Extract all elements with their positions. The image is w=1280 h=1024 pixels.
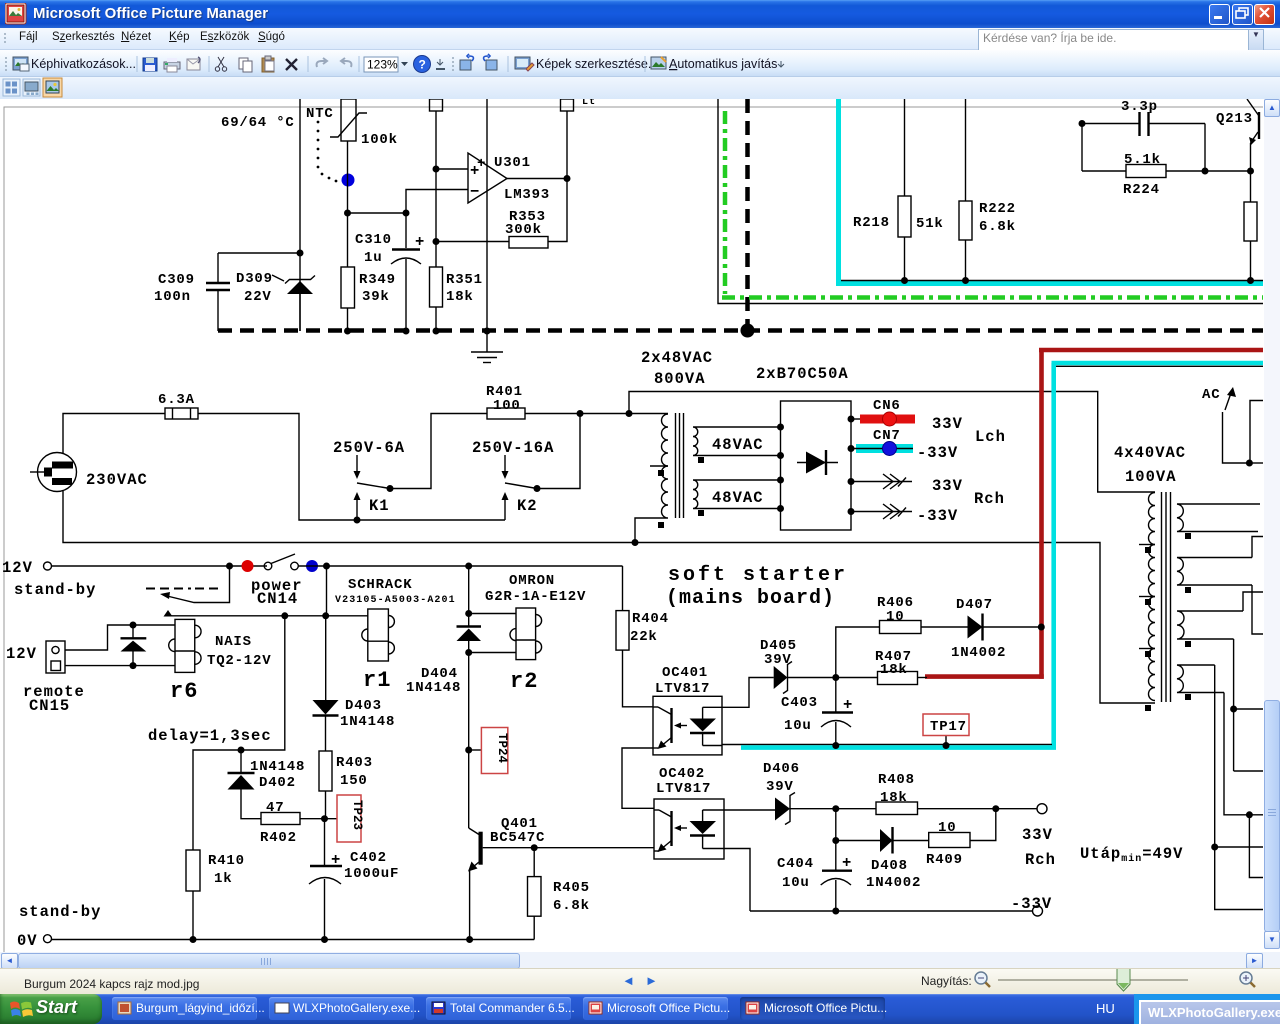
- annotation arrow 250V-6A: [354, 455, 361, 479]
- svg-text:r1: r1: [363, 668, 391, 693]
- optocoupler OC401 LTV817: [653, 696, 722, 755]
- wire R401 to node: [525, 413, 629, 415]
- resistor R402 47: [261, 813, 300, 825]
- diode D404: [457, 627, 482, 751]
- node K1 bottom junction: [354, 517, 361, 524]
- svg-text:?: ?: [419, 58, 426, 72]
- wire OC402 anode to D406: [724, 809, 775, 811]
- svg-text:Automatikus javítás: Automatikus javítás: [669, 57, 777, 71]
- svg-text:Képhivatkozások...: Képhivatkozások...: [31, 57, 136, 71]
- test point TP24: [469, 728, 509, 774]
- svg-text:33V: 33V: [1022, 826, 1053, 844]
- svg-text:K1: K1: [369, 497, 390, 515]
- wire secondary D links: [1215, 665, 1263, 910]
- wire K1 to R401: [390, 414, 487, 489]
- wire OC401 emitter to OC402: [622, 748, 654, 808]
- svg-text:D402: D402: [259, 775, 296, 791]
- svg-text:r6: r6: [170, 679, 198, 704]
- wire C309-D309 top: [218, 252, 300, 254]
- svg-text:Lch: Lch: [975, 428, 1006, 446]
- bridge diode symbol: [797, 450, 838, 475]
- wire -33V rail: [750, 910, 1033, 912]
- cyan net vertical top-right: [836, 99, 1263, 284]
- svg-text:18k: 18k: [880, 662, 908, 678]
- resistor R406 10: [880, 621, 922, 634]
- annotation arrow 250V-16A: [502, 455, 509, 479]
- resistor R218: [898, 99, 911, 281]
- svg-text:delay=1,3sec: delay=1,3sec: [148, 727, 272, 745]
- svg-text:10: 10: [938, 820, 956, 836]
- wire -input: [406, 190, 468, 214]
- svg-text:V23105-A5003-A201: V23105-A5003-A201: [335, 595, 456, 606]
- connector -33V chevron: [851, 504, 912, 519]
- svg-text:5.1k: 5.1k: [1124, 152, 1161, 168]
- svg-text:Rch: Rch: [974, 490, 1005, 508]
- wire K1K2 bottom link: [357, 519, 505, 521]
- node r2 bottom: [465, 649, 472, 656]
- svg-text:6.8k: 6.8k: [553, 898, 590, 914]
- transformer T1 secondary 2: [693, 480, 781, 509]
- svg-text:R408: R408: [878, 772, 915, 788]
- svg-text:-33V: -33V: [1011, 895, 1052, 913]
- svg-text:1N4148: 1N4148: [250, 759, 305, 775]
- node T1 primary top: [626, 410, 633, 417]
- transistor Q213: [1247, 99, 1259, 171]
- transformer T2 secondary A: [1177, 504, 1260, 532]
- node R409 top junction: [992, 805, 999, 812]
- node C309/D309 top junction: [297, 250, 304, 257]
- svg-text:1N4002: 1N4002: [951, 645, 1006, 661]
- svg-text:R222: R222: [979, 201, 1016, 217]
- svg-text:39V: 39V: [764, 652, 792, 668]
- node sensor blue: [342, 174, 355, 187]
- node R405 junction: [531, 844, 538, 851]
- transformer T1 core: [676, 413, 684, 518]
- wire plug top to fuse: [63, 414, 165, 454]
- wire OC402 cathode down: [724, 849, 750, 912]
- svg-text:R349: R349: [359, 272, 396, 288]
- wire NTC to node: [347, 141, 349, 213]
- green dash-dot board boundary: [722, 111, 1263, 298]
- svg-text:Rch: Rch: [1025, 851, 1056, 869]
- test point TP17: [923, 714, 969, 746]
- net cyan rail bottom: [741, 745, 1056, 750]
- switch AC selector: [1202, 387, 1263, 467]
- svg-text:1N4002: 1N4002: [866, 875, 921, 891]
- svg-text:47: 47: [266, 800, 284, 816]
- node dashed bus big junction: [741, 324, 755, 338]
- svg-text:2x48VAC: 2x48VAC: [641, 349, 713, 367]
- svg-text:D403: D403: [345, 698, 382, 714]
- wire vertical feed x=300 from top: [299, 99, 301, 331]
- resistor R353 feedback: [436, 179, 567, 249]
- svg-text:NAIS: NAIS: [215, 634, 252, 650]
- svg-text:BC547C: BC547C: [490, 830, 545, 846]
- wire under cyan top: [1056, 365, 1263, 367]
- svg-text:39V: 39V: [766, 779, 794, 795]
- svg-text:R218: R218: [853, 215, 890, 231]
- transformer T1 primary winding: [629, 414, 668, 543]
- dotted linkage to sensor node: [317, 121, 338, 183]
- wire to r2 coil bottom: [469, 652, 516, 654]
- svg-text:D309: D309: [236, 271, 273, 287]
- switch K1 contact: [354, 483, 394, 520]
- resistor R404 22k: [616, 566, 653, 707]
- svg-text:SCHRACK: SCHRACK: [348, 577, 412, 593]
- svg-text:D408: D408: [871, 858, 908, 874]
- ground: [471, 352, 503, 363]
- wire plug bottom rail: [63, 491, 1155, 703]
- mechanical linkage arm: [160, 566, 230, 603]
- wire secondary B links: [1252, 537, 1263, 558]
- svg-text:48VAC: 48VAC: [712, 436, 764, 454]
- svg-text:Utápmin=49V: Utápmin=49V: [1080, 845, 1183, 865]
- wire D404 column: [468, 566, 470, 626]
- capacitor C402 1000uF: [309, 819, 342, 940]
- capacitor C310: [391, 213, 421, 331]
- node +input junction: [433, 166, 440, 173]
- node CN14 blue pin: [306, 560, 318, 572]
- wire op-amp output: [507, 178, 567, 180]
- wire CN15 pin1 to r6: [65, 625, 175, 650]
- svg-text:R410: R410: [208, 853, 245, 869]
- svg-text:51k: 51k: [916, 216, 944, 232]
- svg-text:R404: R404: [632, 611, 669, 627]
- mains plug 230VAC: [30, 453, 77, 492]
- svg-text:4x40VAC: 4x40VAC: [1114, 444, 1186, 462]
- diode D403: [313, 616, 339, 751]
- diode D407 1N4002: [968, 614, 1042, 641]
- svg-text:LM393: LM393: [504, 187, 550, 203]
- connector 33V Rch chevron: [851, 474, 912, 489]
- svg-text:C402: C402: [350, 850, 387, 866]
- svg-text:69/64 °C: 69/64 °C: [221, 115, 295, 131]
- zener diode D406 39V: [775, 793, 876, 825]
- svg-text:-33V: -33V: [917, 444, 958, 462]
- svg-text:CN6: CN6: [873, 398, 901, 414]
- wire 12V to CN14: [52, 565, 268, 567]
- svg-text:2xB70C50A: 2xB70C50A: [756, 365, 849, 383]
- svg-text:1u: 1u: [364, 250, 382, 266]
- svg-text:soft starter: soft starter: [668, 564, 848, 587]
- svg-text:100n: 100n: [154, 289, 191, 305]
- zener diode D405 39V: [774, 662, 836, 694]
- svg-text:6.8k: 6.8k: [979, 219, 1016, 235]
- transformer T1 secondary 1: [693, 427, 781, 456]
- svg-text:AC: AC: [1202, 387, 1220, 403]
- node R353 left junction: [433, 238, 440, 245]
- wire vertical feed x=487 to ground: [486, 99, 488, 352]
- svg-text:NTC: NTC: [306, 106, 334, 122]
- node T1 primary bottom junction: [632, 539, 639, 546]
- wire output feed up with cut body: [561, 99, 574, 179]
- svg-text:CN15: CN15: [29, 697, 70, 715]
- resistor right edge: [1244, 171, 1257, 281]
- wire -33V net horizontal: [841, 280, 1263, 282]
- svg-text:3.3p: 3.3p: [1121, 99, 1158, 115]
- svg-text:G2R-1A-E12V: G2R-1A-E12V: [485, 589, 586, 605]
- resistor R349: [341, 213, 355, 331]
- wire K2 bypass: [537, 414, 580, 489]
- svg-text:-33V: -33V: [917, 507, 958, 525]
- resistor R222: [959, 99, 972, 281]
- svg-text:LTV817: LTV817: [656, 781, 711, 797]
- resistor R403 150: [319, 751, 332, 819]
- svg-text:R409: R409: [926, 852, 963, 868]
- capacitor 3.3p: [1082, 112, 1205, 136]
- wire to r2 coil top: [469, 613, 516, 615]
- transformer T2 secondary B: [1177, 558, 1252, 586]
- diode r6 flyback: [121, 622, 147, 670]
- node r2 top: [465, 610, 472, 617]
- svg-text:0V: 0V: [17, 932, 38, 950]
- mechanical linkage dashes: [146, 588, 222, 590]
- svg-text:10: 10: [886, 609, 904, 625]
- optocoupler OC402 LTV817: [654, 799, 724, 859]
- svg-text:230VAC: 230VAC: [86, 471, 148, 489]
- svg-text:stand-by: stand-by: [14, 581, 96, 599]
- black dashed vertical branch: [745, 99, 750, 330]
- op-amp U301: [468, 153, 507, 203]
- wire r6 contact line: [168, 615, 368, 617]
- svg-text:6.3A: 6.3A: [158, 392, 195, 408]
- transformer T2 secondary C: [1177, 611, 1243, 639]
- thermistor NTC R 100k: [330, 99, 367, 141]
- svg-text:CN14: CN14: [257, 590, 298, 608]
- svg-text:100k: 100k: [361, 132, 398, 148]
- bridge output nodes: [848, 416, 855, 423]
- wire fuse to K1 branch: [198, 414, 357, 521]
- svg-text:18k: 18k: [446, 289, 474, 305]
- svg-text:48VAC: 48VAC: [712, 489, 764, 507]
- black dashed bus rail: [218, 328, 1263, 333]
- svg-text:−: −: [470, 183, 480, 201]
- svg-text:OC402: OC402: [659, 766, 705, 782]
- wire R406 to D407: [921, 626, 968, 628]
- wire cap left down: [1081, 124, 1083, 172]
- node CN14 red pin: [242, 560, 254, 572]
- transistor Q401 BC547C: [468, 750, 654, 940]
- svg-text:22V: 22V: [244, 289, 272, 305]
- svg-text:+: +: [843, 696, 853, 714]
- svg-text:250V-6A: 250V-6A: [333, 439, 405, 457]
- connector CN15: [46, 641, 65, 673]
- resistor R405 6.8k: [528, 848, 542, 940]
- zener diode D309: [285, 276, 315, 332]
- wire +input: [436, 168, 468, 170]
- wire CN15 pin2 to r6: [65, 665, 175, 667]
- svg-text:18k: 18k: [880, 790, 908, 806]
- capacitor C309: [206, 253, 230, 331]
- diode D408 1N4002: [836, 827, 929, 854]
- wire R402 to node: [300, 818, 337, 820]
- svg-text:K2: K2: [517, 497, 538, 515]
- svg-text:10u: 10u: [784, 718, 812, 734]
- relay r6 actuator arrow: [164, 610, 173, 617]
- thin board outline top-right: [718, 99, 1263, 304]
- svg-text:12V: 12V: [2, 559, 33, 577]
- svg-text:800VA: 800VA: [654, 370, 706, 388]
- svg-text:R403: R403: [336, 755, 373, 771]
- svg-text:12V: 12V: [6, 645, 37, 663]
- node output junction: [564, 175, 571, 182]
- svg-text:100VA: 100VA: [1125, 468, 1177, 486]
- svg-text:300k: 300k: [505, 222, 542, 238]
- node TP24 junction: [465, 747, 472, 754]
- resistor R410: [186, 850, 200, 940]
- svg-text:TP24: TP24: [495, 733, 509, 764]
- svg-text:10u: 10u: [782, 875, 810, 891]
- wire C404 node down: [835, 809, 837, 870]
- resistor R409 10: [929, 809, 996, 848]
- svg-text:OMRON: OMRON: [509, 573, 555, 589]
- svg-text:TP23: TP23: [350, 800, 364, 830]
- net 33V Lch dark red: [1039, 350, 1263, 679]
- capacitor C403 10u: [821, 678, 853, 746]
- svg-text:R405: R405: [553, 880, 590, 896]
- fuse 6.3A: [165, 408, 198, 419]
- wire secondary C links: [1243, 592, 1263, 611]
- svg-text:1000uF: 1000uF: [344, 866, 399, 882]
- resistor R408 18k: [876, 802, 1037, 815]
- svg-text:39k: 39k: [362, 289, 390, 305]
- node C403 top junction: [832, 674, 839, 681]
- connector CN6 red: [851, 412, 915, 426]
- svg-text:100: 100: [493, 398, 521, 414]
- switch power CN14: [264, 554, 298, 570]
- node D408 junction: [832, 837, 839, 844]
- bridge rectifier 2xB70C50A: [781, 401, 852, 530]
- capacitor C404 10u: [821, 871, 852, 911]
- svg-text:33V: 33V: [932, 415, 963, 433]
- T2 primary taps: [1139, 545, 1155, 649]
- T1 primary tap: [650, 465, 668, 467]
- svg-text:1N4148: 1N4148: [340, 714, 395, 730]
- svg-text:+: +: [842, 854, 852, 872]
- resistor R401: [487, 408, 525, 419]
- svg-text:22k: 22k: [630, 629, 658, 645]
- wire to R406: [836, 627, 880, 678]
- transformer T2 secondary D: [1177, 665, 1224, 693]
- node red net junction: [1038, 624, 1045, 631]
- node cap left junction: [1079, 120, 1086, 127]
- terminal -33V: [1033, 906, 1043, 916]
- wire OC401 anode to D405: [722, 678, 774, 708]
- resistor R224 5.1k: [1082, 165, 1251, 178]
- relay coil r1: [362, 609, 395, 661]
- svg-text:+: +: [415, 233, 425, 251]
- svg-text:TP17: TP17: [930, 719, 967, 735]
- svg-text:R402: R402: [260, 830, 297, 846]
- wire 0V rail: [52, 939, 535, 941]
- svg-text:CN7: CN7: [873, 428, 901, 444]
- svg-text:TQ2-12V: TQ2-12V: [207, 653, 271, 669]
- net -33V cyan highlight: [1052, 363, 1264, 749]
- transformer T2 core: [1162, 492, 1171, 702]
- svg-text:250V-16A: 250V-16A: [472, 439, 554, 457]
- svg-text:Képek szerkesztése...: Képek szerkesztése...: [536, 57, 658, 71]
- svg-text:D406: D406: [763, 761, 800, 777]
- test point TP23: [337, 795, 364, 842]
- svg-text:+: +: [477, 156, 486, 172]
- svg-text:1k: 1k: [214, 871, 232, 887]
- svg-text:U301: U301: [494, 155, 531, 171]
- svg-text:R351: R351: [446, 272, 483, 288]
- svg-text:(mains board): (mains board): [666, 587, 835, 610]
- transformer T2 primary: [1149, 493, 1155, 701]
- diode D402: [228, 750, 262, 819]
- wire r1 column: [326, 566, 328, 616]
- switch K2 contact: [502, 483, 541, 520]
- terminal 33V Rch: [1037, 804, 1047, 814]
- svg-text:Lt: Lt: [582, 99, 596, 108]
- wire CN14 to R404: [298, 565, 623, 567]
- wire node to C310: [348, 212, 407, 214]
- node junction: [344, 210, 351, 217]
- svg-text:stand-by: stand-by: [19, 903, 101, 921]
- svg-text:C403: C403: [781, 695, 818, 711]
- connector CN7 blue/cyan: [851, 442, 913, 456]
- svg-text:1N4148: 1N4148: [406, 680, 461, 696]
- svg-text:r2: r2: [510, 669, 538, 694]
- resistor R407 18k: [836, 672, 927, 685]
- svg-text:R224: R224: [1123, 182, 1160, 198]
- relay coil r6 NAIS TQ2-12V: [169, 619, 201, 672]
- terminal 0V stand-by: [44, 935, 52, 943]
- svg-text:C404: C404: [777, 856, 814, 872]
- svg-text:C309: C309: [158, 272, 195, 288]
- svg-text:+: +: [331, 851, 341, 869]
- resistor R351 with cut body at top: [430, 99, 443, 331]
- relay coil r2: [510, 608, 542, 660]
- svg-text:Q213: Q213: [1216, 111, 1253, 127]
- terminal 12V stand-by: [44, 562, 52, 570]
- wire cap right down: [1204, 124, 1206, 172]
- svg-text:LTV817: LTV817: [655, 681, 710, 697]
- svg-text:OC401: OC401: [662, 665, 708, 681]
- svg-text:C310: C310: [355, 232, 392, 248]
- svg-text:123%: 123%: [367, 58, 398, 72]
- wire cyan net black: [722, 744, 1052, 746]
- wire delay node: [193, 616, 285, 850]
- wire top rail to T2: [629, 392, 1155, 493]
- net red branch to R407: [925, 674, 1044, 679]
- svg-text:150: 150: [340, 773, 368, 789]
- node C404 top junction: [832, 805, 839, 812]
- svg-text:D407: D407: [956, 597, 993, 613]
- svg-text:33V: 33V: [932, 477, 963, 495]
